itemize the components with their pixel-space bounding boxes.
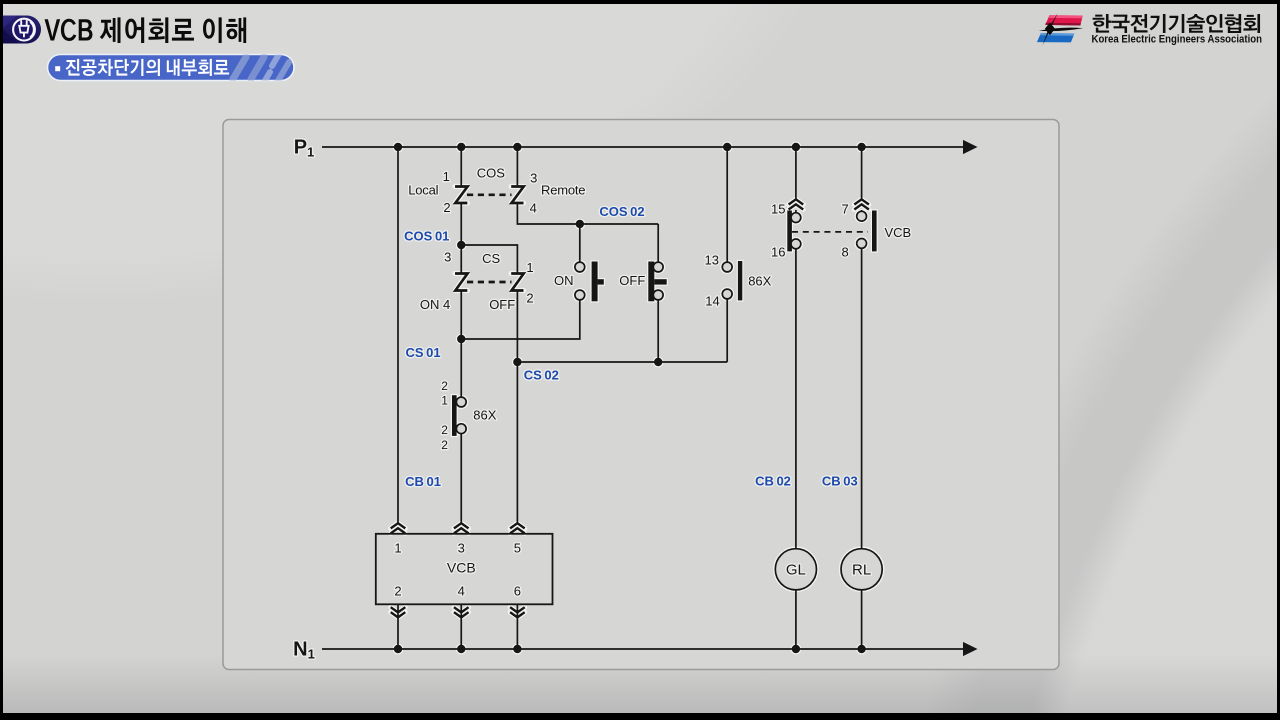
svg-text:Korea Electric Engineers Assoc: Korea Electric Engineers Association xyxy=(1092,34,1263,46)
